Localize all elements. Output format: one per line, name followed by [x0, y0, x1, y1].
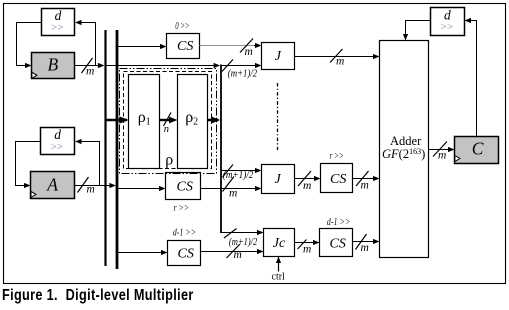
- svg-text:ctrl: ctrl: [272, 272, 286, 283]
- svg-text:r >>: r >>: [174, 203, 190, 214]
- svg-text:d-1 >>: d-1 >>: [327, 217, 351, 228]
- svg-text:m: m: [303, 180, 311, 192]
- svg-text:m: m: [361, 242, 369, 254]
- svg-text:(m+1)/2: (m+1)/2: [223, 170, 254, 181]
- svg-text:d: d: [444, 7, 451, 22]
- svg-text:(m+1)/2: (m+1)/2: [228, 68, 257, 79]
- svg-text:C: C: [472, 139, 484, 159]
- svg-text:n: n: [164, 124, 169, 135]
- svg-text:m: m: [303, 244, 311, 256]
- svg-text:CS: CS: [177, 179, 193, 194]
- svg-text:B: B: [48, 55, 59, 75]
- svg-text:0 >>: 0 >>: [175, 21, 189, 32]
- svg-text:m: m: [438, 150, 446, 162]
- svg-text:m: m: [336, 56, 344, 68]
- svg-text:ρ: ρ: [165, 152, 173, 169]
- svg-text:m: m: [234, 249, 242, 261]
- svg-text:ρ1: ρ1: [138, 109, 151, 128]
- svg-text:CS: CS: [177, 39, 193, 54]
- svg-text:CS: CS: [330, 172, 346, 187]
- svg-text:>>: >>: [440, 21, 453, 33]
- svg-text:GF(2163): GF(2163): [382, 147, 425, 161]
- svg-text:>>: >>: [51, 22, 64, 34]
- svg-text:J: J: [275, 49, 282, 64]
- svg-text:ρ2: ρ2: [185, 109, 198, 128]
- svg-text:>>: >>: [50, 141, 63, 153]
- svg-text:(m+1)/2: (m+1)/2: [229, 237, 257, 248]
- svg-text:A: A: [46, 174, 58, 194]
- svg-text:r >>: r >>: [330, 151, 344, 162]
- svg-text:m: m: [245, 46, 253, 58]
- svg-text:d-1 >>: d-1 >>: [173, 227, 196, 238]
- svg-text:m: m: [361, 180, 369, 192]
- svg-text:d: d: [55, 8, 62, 23]
- svg-text:J: J: [275, 172, 282, 187]
- svg-text:d: d: [54, 127, 61, 142]
- svg-text:CS: CS: [330, 236, 346, 251]
- svg-text:m: m: [86, 66, 94, 78]
- svg-text:CS: CS: [178, 246, 194, 261]
- svg-text:m: m: [229, 188, 237, 200]
- svg-text:m: m: [87, 184, 95, 196]
- svg-text:Jc: Jc: [273, 236, 286, 251]
